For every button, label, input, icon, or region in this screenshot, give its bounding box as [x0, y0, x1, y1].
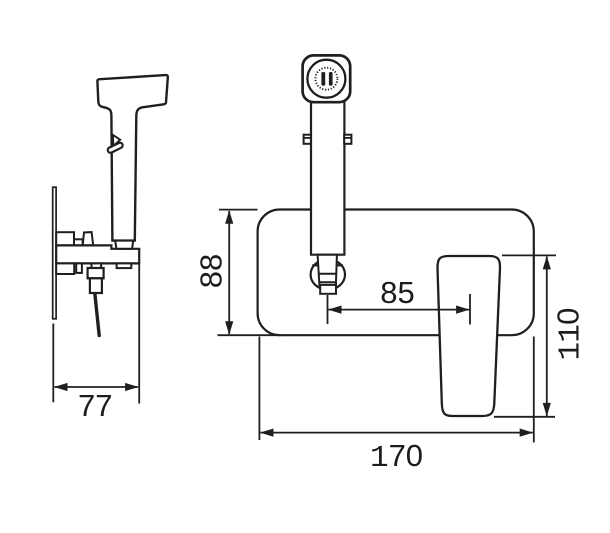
svg-text:77: 77 — [78, 388, 112, 423]
svg-text:88: 88 — [194, 254, 229, 288]
svg-text:85: 85 — [380, 275, 414, 310]
svg-text:170: 170 — [370, 438, 423, 476]
svg-text:110: 110 — [551, 308, 589, 361]
